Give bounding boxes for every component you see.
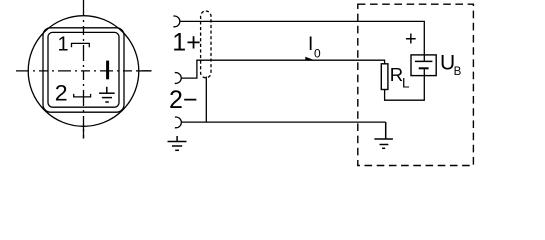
svg-text:1+: 1+ [172,29,201,57]
svg-text:0: 0 [314,46,321,60]
svg-text:L: L [402,76,410,91]
svg-text:2: 2 [55,81,68,106]
svg-text:B: B [454,66,462,78]
svg-text:2−: 2− [169,86,198,114]
svg-text:+: + [405,29,417,51]
svg-text:I: I [308,34,313,55]
svg-text:1: 1 [58,33,69,55]
